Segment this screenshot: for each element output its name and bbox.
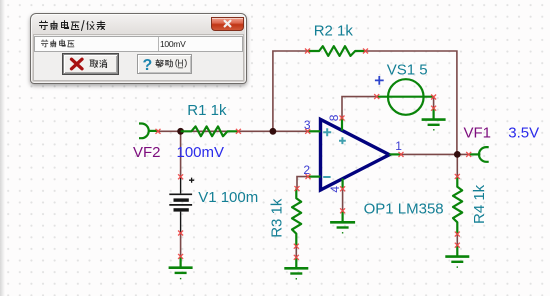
VS1 through line bbox=[377, 96, 434, 98]
battery V1 bbox=[169, 177, 192, 233]
svg-text:OP1 LM358: OP1 LM358 bbox=[364, 201, 444, 218]
wire V1 bottom to ground bbox=[180, 233, 182, 256]
op-amp plus input mark bbox=[323, 128, 331, 136]
row divider bbox=[158, 37, 159, 51]
pin connection X marks bbox=[156, 49, 472, 260]
resistor R2 bbox=[308, 46, 366, 56]
op-amp plus supply mark bbox=[339, 137, 346, 144]
wire R2 right down to output node bbox=[366, 51, 457, 154]
terminal VF1 bbox=[479, 147, 489, 162]
wire pin4 to ground bbox=[342, 189, 344, 211]
dialog close button bbox=[211, 17, 244, 31]
resistor R1 bbox=[181, 126, 239, 136]
svg-text:R2 1k: R2 1k bbox=[314, 22, 354, 39]
ground under R4 bbox=[445, 245, 469, 267]
svg-text:2: 2 bbox=[303, 163, 310, 177]
svg-text:VS1 5: VS1 5 bbox=[387, 61, 428, 78]
dialog title text (vector CJK) bbox=[38, 19, 148, 33]
op-amp pin8 lead bbox=[341, 118, 343, 131]
svg-text:VF2: VF2 bbox=[133, 144, 161, 161]
left window edge shading bbox=[0, 0, 5, 296]
node junction dot B (R1/R2/pin3) bbox=[270, 128, 277, 135]
node junction dot A (R1/V1/VF2) bbox=[177, 128, 184, 135]
resistor R4 bbox=[453, 176, 462, 234]
ground under VS1 bbox=[422, 108, 446, 130]
svg-text:?: ? bbox=[143, 57, 153, 73]
wire VS1 right to ground bbox=[433, 97, 435, 108]
svg-text:V1 100m: V1 100m bbox=[198, 189, 258, 206]
svg-text:1: 1 bbox=[395, 139, 402, 153]
VS1 plus sign bbox=[375, 76, 384, 85]
svg-text:3: 3 bbox=[304, 118, 311, 132]
op-amp pin2 lead bbox=[308, 176, 321, 178]
ground under op-amp pin4 bbox=[330, 211, 355, 233]
wire feedback left vertical to R2 bbox=[273, 51, 308, 131]
svg-text:8: 8 bbox=[327, 114, 341, 121]
ground under R3 bbox=[284, 257, 308, 279]
wire R4 bottom to ground bbox=[456, 234, 458, 245]
node junction dot C (output VF1) bbox=[454, 151, 461, 158]
wire R3 bottom to ground bbox=[295, 246, 297, 257]
op-amp pin3 lead bbox=[308, 130, 321, 132]
resistor R3 bbox=[292, 189, 301, 247]
dialog content panel bbox=[33, 34, 244, 81]
cancel red X icon bbox=[72, 59, 83, 69]
op-amp pin4 lead bbox=[342, 179, 344, 189]
svg-text:4: 4 bbox=[328, 186, 342, 193]
wire node to R4 top bbox=[456, 154, 458, 176]
cancel button 取消 bbox=[63, 54, 118, 74]
ground under V1 bbox=[169, 256, 193, 278]
op-amp U1 triangle bbox=[321, 119, 390, 190]
terminal VF2 bbox=[139, 124, 149, 139]
wire main input net y=131 bbox=[158, 130, 308, 132]
svg-text:100mV: 100mV bbox=[177, 144, 225, 161]
op-amp pin1 lead bbox=[389, 153, 401, 155]
row value 100mV bbox=[160, 39, 185, 49]
dialog value row bbox=[34, 36, 243, 52]
svg-text:VF1: VF1 bbox=[464, 125, 492, 142]
wire output net to VF1 bbox=[401, 153, 469, 155]
op-amp minus input mark bbox=[323, 176, 330, 178]
svg-text:R1 1k: R1 1k bbox=[187, 102, 227, 119]
voltage source VS1 circle bbox=[388, 79, 424, 115]
dialog 节点电压/仪表 bbox=[30, 13, 247, 84]
row label 节点电压 (vector CJK) bbox=[40, 38, 100, 50]
wire node to V1 top bbox=[180, 131, 182, 177]
wire pin8 to VS1 bbox=[342, 97, 377, 118]
svg-text:R4 1k: R4 1k bbox=[471, 184, 488, 224]
svg-text:R3 1k: R3 1k bbox=[269, 198, 286, 238]
svg-text:3.5V: 3.5V bbox=[508, 125, 539, 142]
help button 帮助(H) bbox=[137, 54, 192, 74]
wire pin2 to R3 bbox=[297, 177, 308, 189]
battery plus sign bbox=[189, 178, 194, 183]
